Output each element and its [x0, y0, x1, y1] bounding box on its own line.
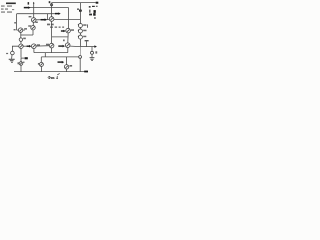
box left edge: [16, 14, 18, 30]
battery plus mark: [89, 6, 91, 8]
transistor VT5: [66, 28, 71, 33]
label row mid: [50, 27, 53, 28]
header text line 4: [1, 12, 5, 13]
wire VT9 emitter down: [51, 48, 53, 53]
wire VT2 emitter down: [32, 30, 34, 35]
battery bar 1: [92, 6, 95, 7]
header text line 2: [1, 6, 5, 7]
diode D3: [78, 35, 82, 39]
transistor VT11: [64, 65, 68, 69]
label 5 output: [95, 51, 97, 53]
output terminal wire: [91, 47, 93, 52]
wire VT11 to rail: [66, 69, 68, 72]
arrow on rail y13.7: [55, 13, 59, 15]
node label 1: [28, 2, 30, 5]
label D3: [83, 36, 86, 38]
arrow into VT11: [58, 61, 63, 63]
wire VT1 to VT4 with arrow: [36, 19, 49, 21]
junction dot x80.4 top: [79, 9, 82, 12]
header text line 3: [1, 9, 4, 10]
input terminal circle: [11, 51, 15, 55]
wire VT6 emitter down: [67, 48, 69, 53]
wire VT5 emitter: [67, 33, 69, 37]
junction circle x80: [79, 56, 82, 59]
input arrow on rail: [24, 7, 29, 9]
label 5 near x51.6: [49, 1, 51, 3]
label above VT3 stub: [24, 28, 27, 30]
input ground stub: [11, 55, 13, 59]
arrow up at input node: [33, 3, 35, 8]
label right of VT5: [71, 29, 74, 31]
wire VT10 drop: [40, 57, 42, 63]
small node circle on x51.6: [51, 4, 53, 6]
transistor VT10: [39, 62, 43, 66]
wire VT11 base drop: [66, 57, 68, 65]
label input: [6, 53, 8, 54]
tick on left edge: [14, 22, 16, 23]
wire VT1 collector vertical: [33, 8, 35, 18]
wire bias vertical x47.6: [47, 14, 49, 20]
transistor VT7: [19, 44, 23, 48]
link vertical x45.3: [44, 53, 46, 57]
label VT1: [29, 16, 32, 17]
wire x51.6 top vertical: [51, 3, 53, 17]
wire VT7 emitter down: [20, 48, 22, 57]
arrow into VT8: [27, 45, 30, 47]
bottom rail: [14, 71, 85, 73]
label VT2: [28, 25, 31, 26]
wire corner right down: [68, 8, 70, 29]
small mark: [23, 62, 25, 63]
tick with label: [21, 57, 24, 59]
capacitor bar: [85, 40, 89, 41]
label below VT4: [47, 24, 50, 26]
battery blob 2: [93, 13, 95, 16]
wire rail y13.7: [17, 13, 56, 15]
transistor VT1: [31, 18, 36, 23]
output terminal circle: [91, 51, 94, 54]
transistor VT2: [31, 26, 35, 30]
wire VT3 emitter column: [20, 32, 22, 38]
output ground: [90, 56, 95, 59]
wire VT3 right stub: [23, 29, 25, 31]
input wire corner: [12, 46, 18, 51]
wire VT4 emitter down: [51, 21, 53, 43]
stray mark: [57, 73, 59, 75]
label ch: [63, 40, 65, 42]
label right of VT11: [70, 65, 73, 67]
rail y52.6: [34, 52, 68, 54]
wire rail y7.6 input: [24, 7, 69, 9]
label right of VT1: [35, 22, 38, 24]
wire VT8 to VT9: [36, 45, 49, 47]
small device circle x21: [19, 38, 22, 41]
output rail y46.6: [80, 46, 94, 48]
top rail end terminal blob: [96, 2, 99, 4]
label D1: [83, 24, 86, 26]
diode D1: [78, 24, 82, 28]
label left of VT10: [38, 63, 40, 65]
wire to bottom rail: [20, 65, 22, 71]
wire horizontal y35: [21, 34, 33, 36]
transistor VT3: [18, 28, 22, 32]
battery blob 1: [94, 10, 96, 13]
label left of dot: [77, 8, 79, 10]
bottom rail end blob: [84, 71, 88, 73]
transistor VT8: [32, 44, 37, 49]
right margin dash: [87, 24, 88, 27]
battery cell vertical: [89, 10, 90, 13]
label D2: [83, 30, 86, 32]
wire VT8 emitter corner: [33, 49, 35, 53]
input ground: [9, 58, 15, 61]
label left of VT9: [46, 44, 49, 46]
capacitor lead: [86, 41, 88, 46]
output ground stub: [91, 55, 93, 58]
rail y56.9: [41, 56, 79, 58]
battery mark right: [96, 6, 98, 7]
wire branch y36.9: [52, 36, 69, 38]
wire VT1-VT2 link: [32, 22, 34, 25]
lower circle x21: [19, 62, 23, 66]
label right of small device: [23, 38, 26, 40]
transistor VT4: [49, 17, 54, 22]
battery bar 2: [89, 14, 92, 16]
svg-text:Фиг. 4: Фиг. 4: [48, 76, 58, 80]
diode D2: [78, 29, 82, 33]
label left of VT3: [14, 29, 16, 30]
transistor VT6: [65, 43, 70, 48]
wire VT6 collector right: [70, 45, 80, 48]
label right of VT8: [37, 44, 40, 46]
wire x80.4 to bottom: [79, 58, 81, 71]
header text line 1: [6, 3, 16, 5]
battery small mark: [94, 17, 96, 19]
wire to VT6 top: [67, 37, 69, 43]
wire to VT7 top: [20, 41, 22, 44]
wire to lower circle: [20, 58, 22, 62]
wire VT4 collector right: [54, 19, 81, 21]
label left of lower circle: [18, 62, 20, 64]
wire VT7 to arrow: [23, 45, 27, 47]
wire chain vertical: [79, 3, 81, 24]
wire VT3 base from edge: [17, 29, 19, 31]
wire x80.4 mid: [79, 47, 81, 56]
wire VT10 to rail: [40, 66, 42, 71]
top rail y2.6: [52, 2, 96, 4]
transistor VT9: [49, 43, 54, 48]
arrow into VT6: [58, 45, 63, 47]
arrow into VT5: [61, 30, 64, 32]
